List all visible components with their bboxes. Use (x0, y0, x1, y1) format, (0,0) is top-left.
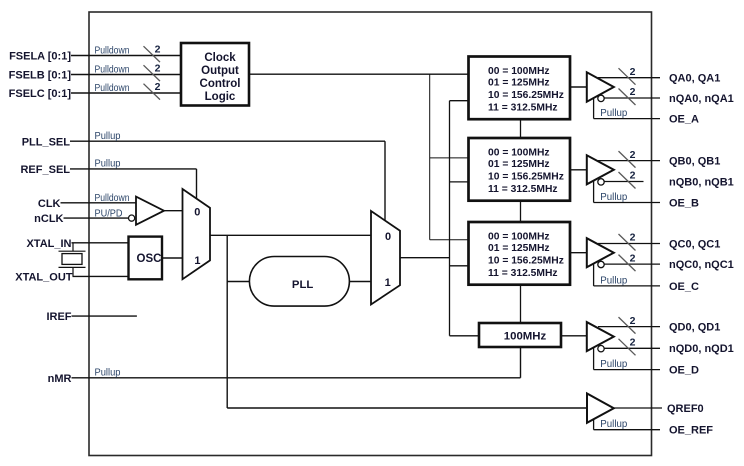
svg-text:11 = 312.5MHz: 11 = 312.5MHz (488, 184, 558, 195)
wire OSC output to mux U1 input 1 (162, 257, 183, 259)
svg-text:Logic: Logic (205, 91, 236, 103)
svg-text:2: 2 (630, 170, 636, 182)
wire control select bus vertical (429, 74, 431, 240)
bus slash nQD (619, 339, 636, 356)
wire REF_SEL drop to mux U1 select (196, 169, 198, 199)
svg-text:00 = 100MHz: 00 = 100MHz (488, 66, 550, 77)
wire OE_D enable riser (593, 347, 595, 369)
inversion bubble nQC (598, 261, 604, 267)
svg-text:01 = 125MHz: 01 = 125MHz (488, 159, 550, 170)
wire input buffer output to mux U1 input 0 (164, 210, 183, 212)
svg-text:REF_SEL: REF_SEL (20, 164, 70, 176)
svg-text:Pullup: Pullup (600, 192, 627, 203)
wire OE_C enable riser (593, 263, 595, 286)
svg-text:0: 0 (194, 207, 200, 219)
output buffer D (587, 322, 614, 351)
svg-text:1: 1 (194, 255, 200, 267)
svg-text:Output: Output (201, 65, 239, 77)
frequency divider A value labels (488, 66, 564, 114)
wire XTAL_OUT to OSC (73, 275, 129, 277)
output buffer A (587, 72, 614, 101)
divider block D 100MHz (479, 323, 561, 347)
wire OE_REF enable riser (593, 419, 595, 430)
svg-text:2: 2 (630, 66, 636, 78)
svg-text:11 = 312.5MHz: 11 = 312.5MHz (488, 102, 558, 113)
wire nMR riser to 100MHz divider (520, 347, 522, 378)
svg-text:10 = 156.25MHz: 10 = 156.25MHz (488, 255, 564, 266)
wire QD output pair (598, 326, 660, 328)
bus slash FSELA (144, 46, 161, 62)
svg-text:Pullup: Pullup (95, 368, 121, 379)
bus slash QA (619, 68, 636, 85)
wire QC output pair (598, 243, 660, 245)
frequency divider C value labels (488, 231, 564, 279)
wire nCLK to input buffer bubble (64, 217, 129, 219)
svg-text:10 = 156.25MHz: 10 = 156.25MHz (488, 90, 564, 101)
svg-text:Pullup: Pullup (95, 131, 121, 142)
wire divider A output to buffer (570, 86, 587, 88)
svg-text:Control: Control (200, 78, 241, 90)
svg-text:2: 2 (155, 44, 161, 56)
wire divider clock bus vertical (449, 101, 451, 336)
svg-text:PLL_SEL: PLL_SEL (22, 136, 71, 148)
svg-text:Pulldown: Pulldown (95, 83, 130, 94)
bus slash nQC (619, 255, 636, 272)
bus slash QD (619, 317, 636, 334)
svg-text:OE_D: OE_D (669, 365, 699, 377)
output buffer B (587, 155, 614, 184)
wire PLL_SEL drop to mux U2 select (384, 141, 386, 220)
svg-text:00 = 100MHz: 00 = 100MHz (488, 147, 550, 158)
wire divider chain B to C (520, 201, 522, 223)
wire FSELA to clock output control logic (71, 55, 181, 57)
wire nQA output pair (604, 97, 660, 99)
wire PLL output to mux U2 input 1 (349, 281, 371, 283)
frequency divider block B (469, 138, 571, 201)
svg-text:01 = 125MHz: 01 = 125MHz (488, 243, 550, 254)
wire divider C output to buffer (570, 252, 587, 254)
svg-text:Pullup: Pullup (600, 275, 627, 286)
svg-text:100MHz: 100MHz (504, 330, 547, 342)
inversion bubble nQD (598, 346, 604, 352)
svg-text:OE_B: OE_B (669, 197, 699, 209)
svg-text:2: 2 (630, 86, 636, 98)
wire clock stub to divider B (450, 181, 470, 183)
inversion bubble nQA (598, 95, 604, 101)
svg-text:QD0, QD1: QD0, QD1 (669, 322, 720, 334)
bus slash FSELC (144, 84, 161, 100)
wire nQD output pair (604, 347, 660, 349)
input buffer U3 differential CLK receiver (136, 197, 164, 225)
svg-text:FSELA [0:1]: FSELA [0:1] (9, 51, 71, 63)
wire QA output pair (598, 77, 660, 79)
wire OE_C (594, 285, 660, 287)
svg-text:OE_A: OE_A (669, 114, 699, 126)
bus slash FSELB (144, 65, 161, 81)
svg-text:2: 2 (155, 63, 161, 75)
svg-text:nQB0, nQB1: nQB0, nQB1 (669, 176, 734, 188)
wire IREF stub (72, 315, 137, 317)
svg-text:OSC: OSC (137, 253, 162, 265)
wire clock stub to divider A (450, 100, 470, 102)
svg-text:QC0, QC1: QC0, QC1 (669, 238, 720, 250)
wire REF_SEL horizontal run (70, 168, 197, 170)
svg-text:Pulldown: Pulldown (95, 65, 130, 76)
bus slash nQB (619, 172, 636, 189)
svg-text:00 = 100MHz: 00 = 100MHz (488, 231, 550, 242)
wire CLK to input buffer (61, 202, 137, 204)
wire OE_B enable riser (593, 181, 595, 203)
inversion bubble on nCLK input (129, 215, 135, 221)
wire nQB output pair (604, 181, 643, 183)
bus slash nQA (619, 89, 636, 106)
clock output control logic label (200, 52, 241, 103)
svg-text:CLK: CLK (38, 198, 61, 210)
svg-text:Pullup: Pullup (600, 419, 627, 430)
wire FSELB to clock output control logic (71, 74, 181, 76)
crystal Y1 body (62, 254, 82, 265)
inversion bubble nQB (598, 179, 604, 185)
wire divider chain A to B (520, 119, 522, 138)
frequency divider B value labels (488, 147, 564, 195)
wire stub into PLL input (227, 281, 250, 283)
wire control logic output to divider A (249, 73, 470, 75)
device boundary box (89, 12, 652, 456)
wire divider B output to buffer (570, 169, 587, 171)
svg-text:XTAL_OUT: XTAL_OUT (15, 272, 73, 284)
wire OE_A enable riser (593, 98, 595, 119)
wire PLL_SEL horizontal run (70, 140, 385, 142)
svg-text:2: 2 (630, 315, 636, 327)
svg-text:2: 2 (630, 149, 636, 161)
mux U1 reference select (183, 189, 211, 279)
svg-text:Clock: Clock (204, 52, 236, 64)
oscillator block OSC (129, 237, 163, 280)
svg-text:0: 0 (385, 231, 391, 243)
wire XTAL_IN to OSC (72, 242, 129, 244)
wire reference clock to QREF buffer (227, 407, 587, 409)
svg-text:FSELB [0:1]: FSELB [0:1] (9, 70, 72, 82)
svg-text:nQD0, nQD1: nQD0, nQD1 (669, 343, 734, 355)
svg-text:Pulldown: Pulldown (95, 46, 130, 57)
frequency divider block A (469, 57, 571, 120)
wire divider D output to buffer (561, 335, 588, 337)
mux U2 PLL bypass select (371, 211, 400, 305)
wire OE_D (594, 369, 660, 371)
svg-text:nMR: nMR (48, 373, 72, 385)
wire control select stub to divider C (430, 239, 470, 241)
wire OE_B (594, 202, 660, 204)
bus slash QB (619, 151, 636, 168)
svg-text:1: 1 (385, 277, 391, 289)
svg-text:2: 2 (155, 81, 161, 93)
wire mux U2 output to divider clock bus (400, 257, 450, 259)
wire clock stub to divider C (450, 265, 470, 267)
output buffer QREF (587, 394, 614, 423)
svg-text:FSELC [0:1]: FSELC [0:1] (9, 88, 72, 100)
svg-text:PU/PD: PU/PD (95, 208, 123, 219)
wire reference drop to PLL and QREF0 (226, 235, 228, 408)
svg-text:nCLK: nCLK (34, 213, 63, 225)
svg-text:10 = 156.25MHz: 10 = 156.25MHz (488, 171, 564, 182)
wire clock stub to divider D 100MHz (450, 335, 480, 337)
wire QB output pair (598, 160, 660, 162)
frequency divider block C (469, 222, 571, 285)
wire divider chain C to D (520, 285, 522, 324)
svg-text:2: 2 (630, 252, 636, 264)
svg-text:QB0, QB1: QB0, QB1 (669, 156, 720, 168)
wire control select stub to divider B (430, 157, 470, 159)
wire mux U1 output to mux U2 input 0 (210, 234, 371, 236)
svg-text:XTAL_IN: XTAL_IN (26, 238, 71, 250)
svg-text:QA0, QA1: QA0, QA1 (669, 73, 720, 85)
svg-text:Pullup: Pullup (95, 159, 121, 170)
wire nMR horizontal run (72, 377, 521, 379)
svg-text:2: 2 (630, 337, 636, 349)
wire nQC output pair (604, 263, 660, 265)
crystal Y1 top lead (72, 243, 74, 251)
svg-text:11 = 312.5MHz: 11 = 312.5MHz (488, 268, 558, 279)
bus slash QC (619, 234, 636, 251)
clock output control logic block (181, 43, 249, 106)
wire OE_REF (594, 429, 660, 431)
wire FSELC to clock output control logic (71, 92, 181, 94)
svg-text:Pullup: Pullup (600, 359, 627, 370)
svg-text:IREF: IREF (46, 311, 71, 323)
wire QREF0 output (614, 407, 662, 409)
output buffer C (587, 238, 614, 267)
crystal Y1 bottom lead (72, 267, 74, 276)
svg-text:nQA0, nQA1: nQA0, nQA1 (669, 93, 734, 105)
svg-text:2: 2 (630, 232, 636, 244)
svg-text:OE_REF: OE_REF (669, 425, 713, 437)
svg-text:01 = 125MHz: 01 = 125MHz (488, 78, 550, 89)
crystal Y1 bottom plate (59, 266, 86, 268)
svg-text:Pullup: Pullup (600, 108, 627, 119)
svg-text:nQC0, nQC1: nQC0, nQC1 (669, 259, 734, 271)
wire OE_A (594, 118, 660, 120)
PLL block (249, 257, 349, 307)
svg-text:PLL: PLL (292, 279, 313, 291)
svg-text:QREF0: QREF0 (667, 403, 704, 415)
crystal Y1 top plate (59, 250, 86, 252)
svg-text:Pulldown: Pulldown (95, 193, 130, 204)
svg-text:OE_C: OE_C (669, 281, 699, 293)
